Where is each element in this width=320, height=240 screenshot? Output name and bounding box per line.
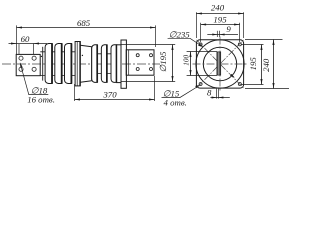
core bottom edge right group	[92, 73, 113, 75]
hole H3	[19, 67, 23, 71]
leader d15 arrow	[195, 85, 200, 88]
dimension 60 arrow right	[34, 42, 40, 44]
dimension 240 top line	[196, 13, 243, 15]
svg-text:195: 195	[213, 14, 227, 24]
dimension d195 side arrow top	[171, 45, 173, 51]
flange ring right wall thick	[79, 42, 81, 86]
dimension 8 arrow left	[212, 96, 217, 98]
core top edge left group	[40, 51, 75, 53]
svg-text:8: 8	[207, 87, 212, 97]
bar hole B2	[150, 54, 153, 57]
svg-text:240: 240	[261, 58, 271, 72]
dimension 685 arrow right	[150, 26, 156, 28]
dimension 195 top ext right	[239, 23, 241, 42]
shed F6 face	[106, 45, 108, 83]
shed F1	[45, 44, 52, 84]
flange hole P3	[199, 83, 202, 86]
dimension 100 ext top	[187, 51, 217, 53]
svg-text:195: 195	[248, 57, 258, 71]
dimension 370 arrow right	[149, 98, 155, 100]
dimension 240 right arrow bottom	[272, 83, 274, 89]
vertical centerline right view	[219, 37, 221, 92]
bar hole B1	[136, 54, 139, 57]
shed F2 face	[61, 44, 63, 84]
diagonal centerline 2	[197, 40, 244, 88]
dimension 9 ext left	[216, 31, 218, 37]
dimension 100 line	[190, 52, 192, 76]
shed F3 face	[70, 44, 72, 84]
dimension 8 ext left	[216, 89, 218, 99]
dimension 370 ext left	[74, 84, 76, 101]
right view square flange	[196, 40, 243, 88]
flange hole P2	[238, 43, 241, 46]
conductor bar seam	[218, 52, 220, 75]
dimension 60 line	[9, 43, 48, 45]
bar hole B3	[136, 68, 139, 71]
dimension 240 right arrow top	[272, 40, 274, 46]
hole H2	[32, 56, 36, 60]
leader d235	[168, 38, 203, 46]
hole H4	[32, 67, 36, 71]
conductor bar slot	[217, 52, 221, 75]
dimension 9 arrow right	[220, 33, 225, 35]
shed F3	[65, 44, 72, 84]
dimension 195 top line	[201, 24, 240, 26]
hole H1	[19, 56, 23, 60]
leader d235 arrow	[198, 44, 203, 47]
porcelain cap edge	[42, 47, 44, 81]
dimension 195 right ext bottom	[242, 84, 264, 86]
dimension 370 ext right	[154, 76, 156, 101]
horizontal centerline right view	[193, 63, 248, 65]
mounting flange ring	[75, 42, 80, 86]
dimension d195 side ext bottom	[121, 81, 176, 83]
dimension 195 right line	[261, 45, 263, 85]
dimension 60 ext right	[33, 44, 35, 55]
svg-text:240: 240	[211, 2, 225, 12]
dimension 240 top ext right	[243, 12, 245, 38]
dot marker 1	[41, 56, 42, 57]
dimension 240 top ext left	[195, 12, 197, 38]
dimension 9 ext right	[219, 31, 221, 37]
end collar d195	[117, 45, 121, 83]
dimension 195 top ext left	[200, 23, 202, 42]
centerline main axis	[2, 63, 160, 65]
dimension 195 top arrow right	[234, 23, 240, 25]
barrel frustum	[80, 45, 91, 82]
shed F7 face	[116, 45, 118, 83]
dimension 370 arrow left	[75, 98, 81, 100]
dimension d195 side arrow bottom	[171, 76, 173, 82]
dimension 60 arrow left	[11, 42, 17, 44]
shed F5 face	[96, 45, 98, 83]
shed F7	[111, 45, 117, 83]
dimension 195 right arrow top	[260, 45, 262, 51]
dimension 240 top arrow left	[196, 12, 202, 14]
flange hole P4	[238, 83, 241, 86]
svg-text:100: 100	[183, 55, 191, 66]
dimension 8 line	[210, 97, 229, 99]
diagonal centerline 1	[197, 40, 244, 88]
dimension 100 arrow top	[189, 52, 191, 58]
dimension 685 arrow left	[17, 26, 23, 28]
flange plate 240	[121, 40, 126, 88]
bar clamp edge	[128, 50, 130, 75]
shed F2	[55, 44, 62, 84]
dimension 9 arrow left	[212, 33, 217, 35]
dimension 240 top arrow right	[238, 12, 244, 14]
svg-text:685: 685	[77, 18, 91, 28]
bar hole B4	[150, 68, 153, 71]
dimension 195 right ext top	[242, 44, 264, 46]
core bottom edge left group	[40, 75, 75, 77]
dimension 195 right arrow bottom	[260, 79, 262, 85]
svg-text:∅195: ∅195	[158, 51, 168, 72]
dimension 685 line	[17, 27, 156, 29]
dimension 240 right line	[273, 40, 275, 89]
dimension d195 side line	[172, 45, 174, 82]
dimension 370 line	[75, 99, 155, 101]
dimension 685 ext left	[16, 25, 18, 54]
svg-text:16 отв.: 16 отв.	[27, 95, 55, 105]
dimension 240 right ext top	[245, 39, 283, 41]
dimension 195 top arrow left	[201, 23, 207, 25]
dimension 9 line	[207, 34, 238, 36]
terminal bar end (left)	[16, 54, 40, 75]
svg-text:∅235: ∅235	[169, 29, 190, 39]
dimension d195 side ext top	[121, 44, 176, 46]
leader d18 arrow	[20, 62, 23, 67]
flange ring inner wall	[76, 42, 78, 86]
dimension 8 ext right	[217, 89, 219, 99]
shed F1 face	[51, 44, 53, 84]
svg-text:9: 9	[226, 24, 231, 34]
dimension 100 ext bottom	[187, 75, 217, 77]
conductor bar right end	[126, 50, 154, 75]
dimension 8 arrow right	[218, 96, 223, 98]
diagonal arrowhead on circle	[230, 74, 235, 78]
dimension 685 ext right	[155, 25, 157, 47]
inner circle	[203, 47, 236, 80]
dimension 685 ext stub	[18, 44, 20, 54]
svg-text:370: 370	[102, 89, 117, 99]
shed F6	[101, 45, 107, 83]
big circle d235	[196, 40, 244, 88]
svg-text:60: 60	[21, 34, 30, 44]
svg-text:4 отв.: 4 отв.	[164, 97, 187, 107]
leader d15	[162, 86, 200, 98]
leader d18	[20, 63, 48, 94]
dimension 100 arrow bottom	[189, 70, 191, 76]
shed F5	[92, 45, 98, 83]
dot marker 2	[82, 55, 83, 56]
dimension 240 right ext bottom	[245, 88, 289, 90]
core top edge right group	[92, 53, 113, 55]
flange hole P1	[199, 43, 202, 46]
